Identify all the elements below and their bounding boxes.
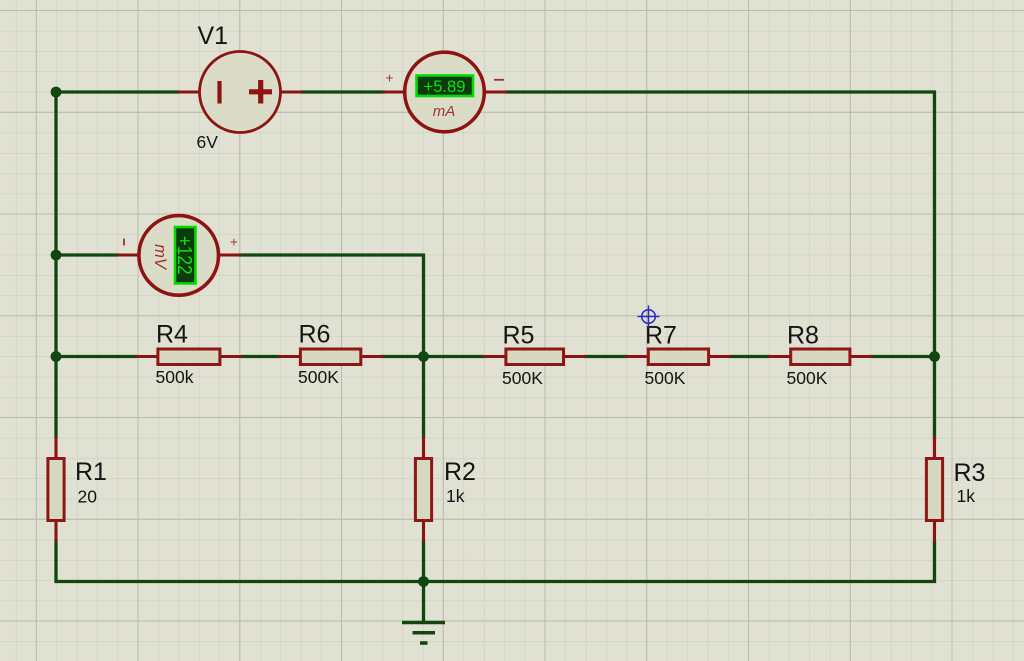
svg-text:R7: R7 (645, 322, 677, 350)
voltmeter pin right (218, 253, 241, 256)
svg-text:R2: R2 (444, 458, 476, 486)
wire voltmeter drop to node (422, 254, 425, 359)
node junction center-resistor-row (418, 351, 429, 362)
svg-text:mA: mA (433, 103, 456, 120)
resistor R6 body (300, 349, 360, 365)
wire R2 lower (422, 540, 425, 583)
svg-text:500K: 500K (502, 368, 543, 388)
voltmeter pin left (117, 253, 140, 256)
node junction left-voltmeter (51, 250, 62, 261)
resistor R2 pin bottom (422, 520, 425, 542)
svg-text:R8: R8 (787, 322, 819, 350)
svg-text:+122: +122 (173, 236, 196, 275)
resistor R5 body (506, 349, 564, 365)
svg-text:1k: 1k (446, 486, 465, 506)
resistor R6 pin left (278, 355, 300, 358)
ammeter LCD display (417, 76, 474, 97)
resistor R4 body (158, 349, 220, 365)
resistor R2 pin top (422, 436, 425, 459)
resistor R1 pin bottom (54, 520, 57, 542)
node junction right-resistor-row (929, 351, 940, 362)
ground bar 2 (413, 631, 436, 635)
svg-text:500K: 500K (645, 368, 686, 388)
svg-text:500k: 500k (156, 367, 194, 387)
wire top-left horizontal (56, 90, 180, 93)
svg-text:500K: 500K (298, 367, 339, 387)
svg-text:+: + (386, 71, 394, 86)
wire voltmeter left (56, 253, 119, 256)
resistor R5 pin right (564, 355, 586, 358)
cursor crosshair (638, 306, 660, 328)
voltmeter minus terminal sign (123, 239, 125, 246)
wire resistor row seg4 (584, 355, 628, 358)
wire V1 to ammeter (300, 90, 385, 93)
resistor R6 pin right (361, 355, 383, 358)
svg-text:R5: R5 (503, 322, 535, 350)
wire resistor row seg6 (870, 355, 936, 358)
svg-text:500K: 500K (787, 368, 828, 388)
resistor R8 body (791, 349, 850, 365)
battery V1 minus bar (217, 81, 221, 104)
wire right bus R3 upper (933, 357, 936, 439)
svg-text:R4: R4 (156, 321, 188, 349)
svg-text:mV: mV (151, 244, 169, 271)
ammeter pin right (483, 90, 507, 93)
svg-text:20: 20 (78, 487, 98, 507)
wire resistor row seg1 (56, 355, 137, 358)
svg-text:+: + (230, 235, 238, 250)
resistor R7 pin right (709, 355, 731, 358)
battery V1 pin right (279, 90, 302, 93)
resistor R2 body (415, 459, 431, 521)
wire voltmeter right (239, 253, 424, 256)
ammeter body (405, 52, 485, 132)
resistor R7 pin left (626, 355, 649, 358)
svg-text:V1: V1 (198, 22, 229, 50)
voltmeter LCD display (175, 227, 196, 284)
resistor R3 pin bottom (933, 520, 936, 542)
battery V1 body (200, 52, 281, 133)
resistor R7 body (648, 349, 708, 365)
resistor R1 pin top (54, 436, 57, 459)
svg-text:6V: 6V (197, 132, 219, 152)
wire resistor row seg2 (240, 355, 280, 358)
ammeter pin left (383, 90, 406, 93)
node junction ground (418, 576, 429, 587)
node junction left-resistor-row (51, 351, 62, 362)
ammeter minus terminal sign (494, 79, 504, 81)
resistor R1 body (48, 459, 64, 521)
svg-text:R3: R3 (954, 459, 986, 487)
svg-text:R6: R6 (299, 321, 331, 349)
wire bottom horizontal (55, 580, 937, 583)
wire resistor row seg5 (729, 355, 770, 358)
wire right bus upper (933, 91, 936, 359)
ground bar 3 (420, 641, 428, 645)
wire right bus R3 lower (933, 540, 936, 583)
resistor R3 body (926, 459, 942, 521)
voltmeter body (139, 216, 219, 296)
battery V1 plus sign (249, 80, 272, 104)
wire R2 upper (422, 357, 425, 439)
resistor R8 pin left (768, 355, 791, 358)
wire resistor row seg3 (381, 355, 485, 358)
svg-text:R1: R1 (75, 458, 107, 486)
svg-text:1k: 1k (957, 486, 976, 506)
battery V1 pin left (178, 90, 201, 93)
resistor R4 pin left (135, 355, 157, 358)
wire left bus (54, 91, 57, 439)
svg-text:+5.89: +5.89 (424, 77, 466, 96)
ground stem (422, 582, 425, 623)
resistor R3 pin top (933, 436, 936, 459)
node junction left-top (51, 87, 62, 98)
wire ammeter to right bus (505, 90, 936, 93)
resistor R8 pin right (850, 355, 872, 358)
ground bar 1 (402, 621, 445, 625)
resistor R5 pin left (483, 355, 506, 358)
wire left bus lower (54, 540, 57, 583)
resistor R4 pin right (220, 355, 242, 358)
